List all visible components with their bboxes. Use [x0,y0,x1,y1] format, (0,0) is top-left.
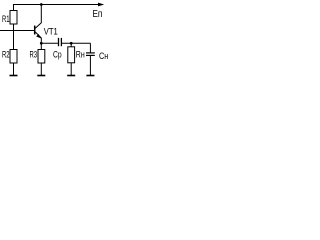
junction collector at rail [40,3,43,6]
wire corner down to Сн [89,43,91,53]
wire R1 bottom lead [13,24,15,31]
svg-text:R2: R2 [2,49,10,60]
junction Rн node [70,42,73,45]
label R2 [2,49,10,60]
wire R1 top lead [13,5,15,11]
svg-text:Сн: Сн [99,50,109,61]
wire input line [0,30,35,32]
wire R2 top lead [13,31,15,50]
wire R3 bottom lead [40,63,42,76]
wire Rн bottom lead [70,63,72,76]
junction base node [13,30,14,31]
wire R3 top lead [40,43,42,49]
resistor Rн [68,47,75,63]
resistor R2 [10,50,17,64]
label Rн [76,50,85,60]
wire Rн top lead [70,43,72,47]
transistor VT1 [35,5,42,44]
ground under R2 [10,75,18,77]
svg-text:R1: R1 [2,14,10,25]
svg-text:Ср: Ср [53,50,62,60]
wire emitter node to Cp [41,42,58,44]
wire Cp to corner [62,42,91,44]
svg-text:Rн: Rн [76,50,85,60]
resistor R3 [38,50,45,64]
label VT1 [44,26,58,37]
supply arrow [98,3,104,7]
label Ср [53,50,62,60]
label Сн [99,50,109,61]
svg-text:VT1: VT1 [44,26,58,37]
svg-text:Еп: Еп [93,8,103,19]
wire top supply rail [13,4,100,6]
ground under Сн [86,75,94,77]
capacitor Сн [86,53,95,56]
svg-text:R3: R3 [30,49,38,60]
label R1 [2,14,10,25]
ground under R3 [37,75,45,77]
label R3 [30,49,38,60]
label Еп [93,8,103,19]
ground under Rн [67,75,75,77]
wire Сн bottom lead [89,56,91,76]
wire R2 bottom lead [13,63,15,76]
capacitor Cp [59,38,62,46]
junction emitter node [40,42,43,45]
resistor R1 [10,11,17,25]
